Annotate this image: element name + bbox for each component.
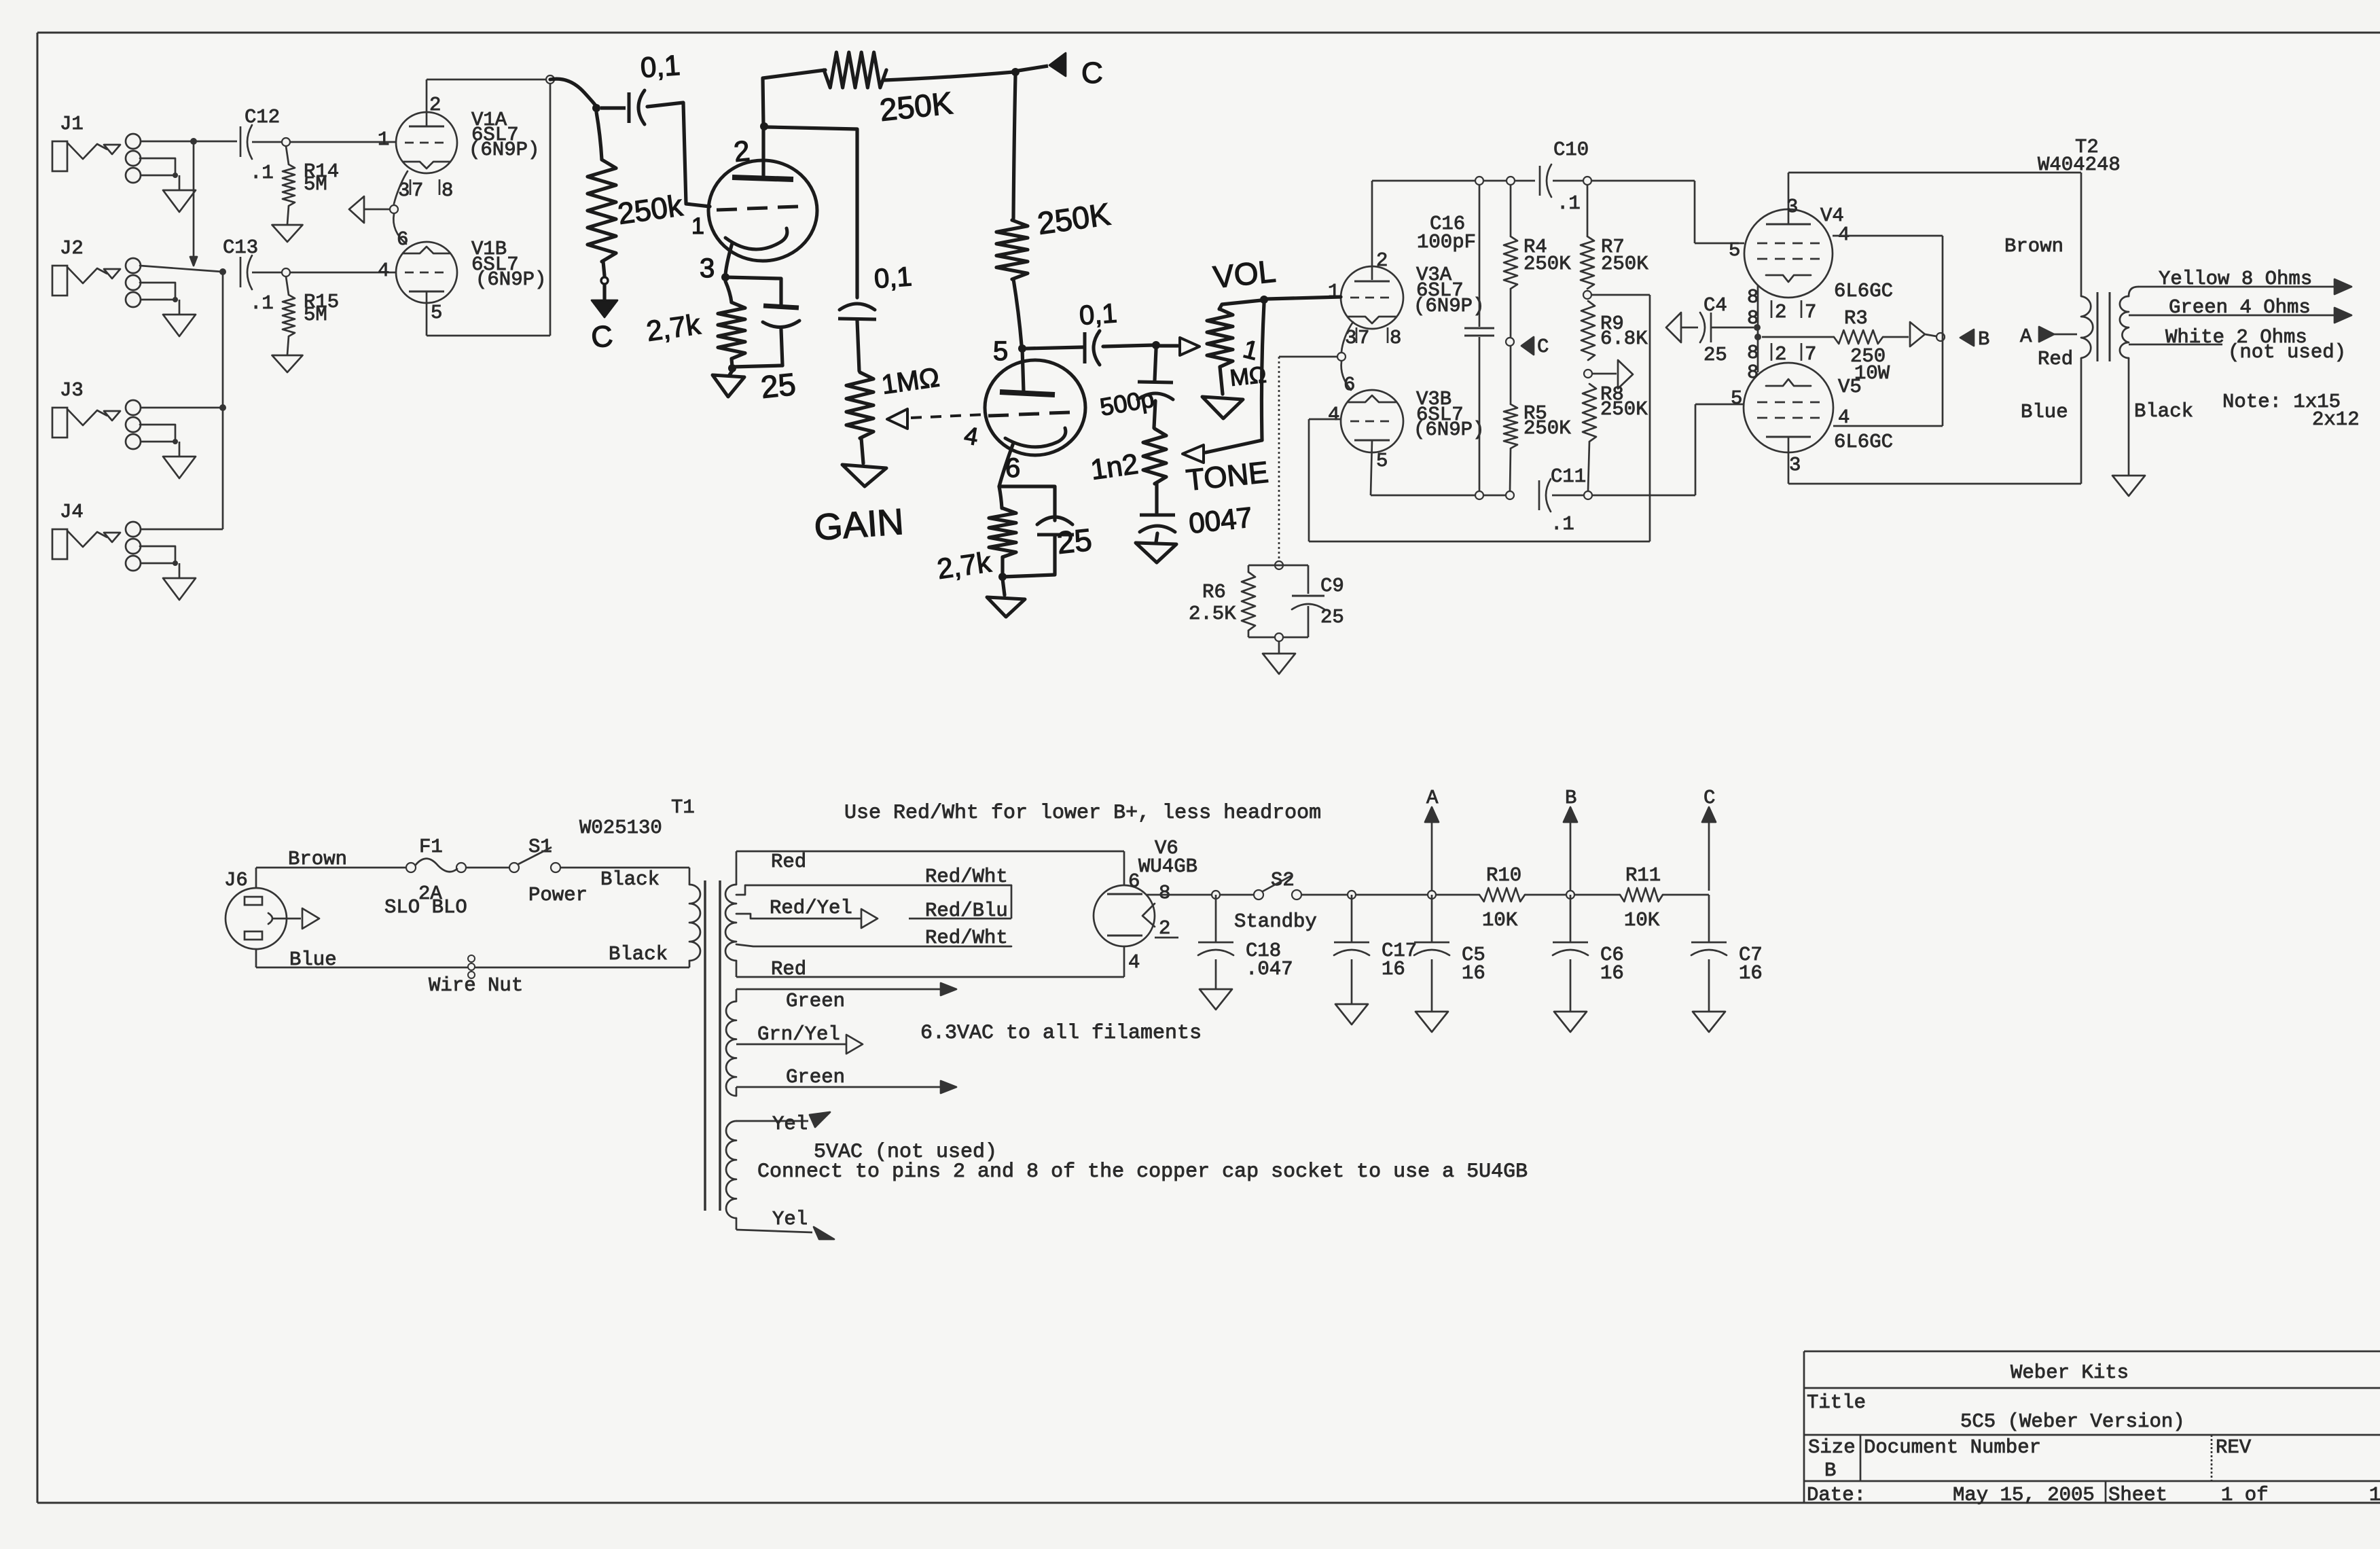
svg-text:16: 16 bbox=[1462, 962, 1485, 984]
svg-text:6: 6 bbox=[397, 228, 408, 251]
svg-text:Power: Power bbox=[528, 884, 588, 906]
svg-text:Yel: Yel bbox=[772, 1113, 808, 1135]
svg-text:(6N9P): (6N9P) bbox=[475, 268, 546, 291]
svg-text:250K: 250K bbox=[1601, 253, 1648, 275]
svg-text:Weber Kits: Weber Kits bbox=[2011, 1361, 2129, 1384]
svg-text:Brown: Brown bbox=[2004, 235, 2063, 257]
svg-text:Black: Black bbox=[2134, 400, 2193, 423]
svg-text:Red: Red bbox=[2038, 348, 2073, 370]
svg-text:2: 2 bbox=[732, 135, 751, 168]
svg-text:.1: .1 bbox=[1551, 513, 1574, 535]
svg-text:5M: 5M bbox=[304, 173, 327, 196]
svg-text:5: 5 bbox=[993, 336, 1008, 366]
svg-text:C4: C4 bbox=[1703, 294, 1727, 317]
svg-text:(not used): (not used) bbox=[2228, 341, 2346, 363]
svg-text:1 of: 1 of bbox=[2221, 1484, 2269, 1506]
svg-text:250K: 250K bbox=[1600, 398, 1648, 421]
svg-text:2: 2 bbox=[429, 94, 441, 116]
svg-text:SLO BLO: SLO BLO bbox=[384, 896, 467, 919]
svg-text:(6N9P): (6N9P) bbox=[1413, 419, 1484, 441]
svg-text:7: 7 bbox=[1805, 301, 1816, 323]
svg-text:B: B bbox=[1824, 1459, 1836, 1482]
svg-text:.1: .1 bbox=[1557, 192, 1581, 215]
svg-text:Date:: Date: bbox=[1807, 1484, 1866, 1506]
svg-text:S1: S1 bbox=[528, 836, 552, 858]
svg-text:Connect to pins 2 and 8 of the: Connect to pins 2 and 8 of the copper ca… bbox=[757, 1160, 1528, 1183]
svg-text:6.8K: 6.8K bbox=[1600, 327, 1648, 350]
svg-text:3: 3 bbox=[1345, 327, 1356, 349]
svg-text:6L6GC: 6L6GC bbox=[1834, 280, 1893, 302]
svg-text:2.5K: 2.5K bbox=[1189, 603, 1236, 625]
svg-text:(6N9P): (6N9P) bbox=[1413, 295, 1484, 317]
svg-text:2x12: 2x12 bbox=[2312, 408, 2360, 431]
svg-text:W025130: W025130 bbox=[579, 817, 662, 839]
svg-text:0047: 0047 bbox=[1187, 501, 1254, 539]
svg-text:2: 2 bbox=[1376, 249, 1388, 272]
svg-text:3: 3 bbox=[1786, 196, 1798, 218]
svg-text:10K: 10K bbox=[1482, 909, 1518, 931]
svg-text:5M: 5M bbox=[304, 304, 327, 326]
svg-text:6.3VAC to all filaments: 6.3VAC to all filaments bbox=[920, 1022, 1202, 1045]
svg-text:C: C bbox=[1703, 787, 1715, 809]
svg-text:16: 16 bbox=[1739, 962, 1763, 984]
svg-text:VOL: VOL bbox=[1212, 253, 1278, 295]
svg-text:Title: Title bbox=[1807, 1391, 1866, 1414]
svg-text:.1: .1 bbox=[250, 292, 274, 315]
svg-text:Size: Size bbox=[1808, 1436, 1856, 1459]
svg-text:Sheet: Sheet bbox=[2108, 1484, 2167, 1506]
svg-text:4: 4 bbox=[1128, 951, 1140, 974]
svg-text:7: 7 bbox=[1805, 343, 1816, 366]
svg-text:5: 5 bbox=[1731, 387, 1742, 410]
svg-text:Red: Red bbox=[771, 958, 806, 980]
svg-text:2: 2 bbox=[1159, 917, 1170, 940]
svg-text:Red/Yel: Red/Yel bbox=[770, 897, 852, 919]
svg-text:C9: C9 bbox=[1320, 575, 1344, 597]
svg-text:Wire Nut: Wire Nut bbox=[429, 974, 523, 997]
svg-text:Green: Green bbox=[786, 1066, 845, 1088]
svg-text:B: B bbox=[1978, 328, 1989, 351]
svg-text:7: 7 bbox=[412, 179, 423, 202]
svg-text:Red/Blu: Red/Blu bbox=[925, 900, 1008, 922]
svg-text:B: B bbox=[1565, 787, 1576, 809]
svg-text:R3: R3 bbox=[1844, 307, 1868, 330]
svg-text:4: 4 bbox=[1838, 224, 1850, 246]
svg-text:(6N9P): (6N9P) bbox=[469, 139, 539, 161]
svg-text:J6: J6 bbox=[224, 869, 248, 891]
svg-text:10K: 10K bbox=[1624, 909, 1660, 931]
svg-text:1n2: 1n2 bbox=[1089, 448, 1140, 486]
svg-text:16: 16 bbox=[1600, 962, 1624, 984]
svg-text:8: 8 bbox=[1390, 327, 1401, 349]
svg-text:100pF: 100pF bbox=[1417, 231, 1476, 253]
svg-text:8: 8 bbox=[441, 179, 453, 202]
svg-text:0,1: 0,1 bbox=[873, 262, 914, 294]
svg-text:.1: .1 bbox=[250, 162, 274, 184]
svg-text:2: 2 bbox=[1775, 301, 1786, 323]
svg-text:1: 1 bbox=[691, 213, 704, 239]
svg-text:GAIN: GAIN bbox=[813, 501, 905, 548]
svg-text:C11: C11 bbox=[1551, 465, 1586, 488]
svg-text:F1: F1 bbox=[419, 836, 443, 858]
svg-text:4: 4 bbox=[1328, 404, 1339, 426]
svg-text:Yel: Yel bbox=[772, 1208, 808, 1230]
svg-text:Black: Black bbox=[600, 868, 660, 891]
svg-text:5: 5 bbox=[1729, 239, 1740, 262]
svg-text:.047: .047 bbox=[1246, 958, 1293, 980]
svg-text:1: 1 bbox=[378, 128, 389, 151]
svg-text:R6: R6 bbox=[1202, 581, 1226, 603]
svg-text:8: 8 bbox=[1159, 882, 1170, 904]
svg-text:0,1: 0,1 bbox=[1079, 298, 1119, 331]
svg-text:WU4GB: WU4GB bbox=[1138, 855, 1197, 878]
svg-text:16: 16 bbox=[1382, 958, 1405, 980]
svg-text:3: 3 bbox=[1789, 454, 1801, 476]
svg-text:25: 25 bbox=[1703, 344, 1727, 366]
svg-text:5: 5 bbox=[431, 302, 442, 324]
svg-text:REV: REV bbox=[2216, 1436, 2252, 1459]
svg-text:J2: J2 bbox=[60, 237, 84, 260]
svg-text:25: 25 bbox=[759, 366, 797, 405]
svg-text:Red: Red bbox=[771, 851, 806, 873]
svg-text:C: C bbox=[1081, 56, 1103, 90]
svg-text:Standby: Standby bbox=[1234, 910, 1317, 933]
svg-text:C: C bbox=[1537, 336, 1549, 358]
svg-text:25: 25 bbox=[1056, 522, 1094, 560]
svg-text:C13: C13 bbox=[223, 236, 258, 259]
svg-text:C12: C12 bbox=[245, 106, 280, 128]
svg-text:10W: 10W bbox=[1854, 362, 1890, 385]
svg-text:6: 6 bbox=[1128, 870, 1140, 893]
svg-text:Document Number: Document Number bbox=[1864, 1436, 2041, 1459]
svg-text:1: 1 bbox=[1328, 281, 1339, 303]
svg-text:May 15, 2005: May 15, 2005 bbox=[1953, 1484, 2095, 1506]
svg-text:W404248: W404248 bbox=[2038, 154, 2121, 176]
svg-text:1: 1 bbox=[2369, 1484, 2380, 1506]
svg-text:J1: J1 bbox=[60, 113, 84, 135]
svg-text:J4: J4 bbox=[60, 501, 84, 523]
svg-text:Blue: Blue bbox=[2021, 401, 2068, 423]
svg-text:0,1: 0,1 bbox=[639, 49, 681, 84]
svg-text:3: 3 bbox=[700, 253, 715, 283]
svg-text:6: 6 bbox=[1005, 453, 1020, 483]
svg-text:3: 3 bbox=[398, 179, 410, 202]
svg-text:6: 6 bbox=[1344, 374, 1355, 396]
svg-text:Use Red/Wht for lower B+, less: Use Red/Wht for lower B+, less headroom bbox=[844, 802, 1321, 825]
svg-text:Green: Green bbox=[786, 990, 845, 1012]
svg-text:250K: 250K bbox=[1523, 417, 1571, 440]
svg-text:6L6GC: 6L6GC bbox=[1834, 431, 1893, 453]
svg-text:2: 2 bbox=[1775, 343, 1786, 366]
svg-text:Black: Black bbox=[609, 943, 668, 965]
svg-text:T1: T1 bbox=[671, 796, 695, 819]
svg-text:4: 4 bbox=[378, 260, 389, 282]
svg-text:R10: R10 bbox=[1486, 864, 1521, 887]
svg-text:25: 25 bbox=[1320, 606, 1344, 628]
svg-text:250K: 250K bbox=[1523, 253, 1571, 275]
svg-text:Blue: Blue bbox=[289, 948, 337, 971]
svg-text:A: A bbox=[2020, 325, 2032, 348]
svg-text:J3: J3 bbox=[60, 379, 84, 402]
svg-text:A: A bbox=[1426, 787, 1439, 809]
svg-text:Grn/Yel: Grn/Yel bbox=[757, 1023, 840, 1046]
svg-text:C10: C10 bbox=[1553, 139, 1589, 161]
svg-text:R11: R11 bbox=[1625, 864, 1661, 887]
svg-text:5: 5 bbox=[1376, 450, 1388, 472]
svg-text:Red/Wht: Red/Wht bbox=[925, 927, 1008, 949]
svg-text:5C5 (Weber Version): 5C5 (Weber Version) bbox=[1960, 1410, 2185, 1433]
svg-text:7: 7 bbox=[1358, 327, 1369, 349]
svg-text:Red/Wht: Red/Wht bbox=[925, 866, 1008, 888]
svg-text:C: C bbox=[590, 319, 615, 355]
